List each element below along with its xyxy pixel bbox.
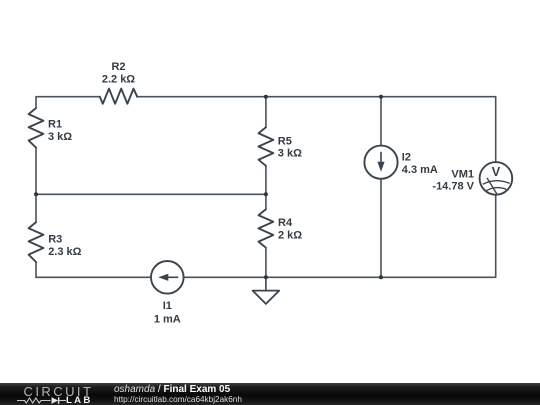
node C junction dot (mid-mid)	[264, 192, 268, 196]
svg-text:3 kΩ: 3 kΩ	[48, 131, 72, 143]
svg-text:oshamda / Final Exam 05: oshamda / Final Exam 05	[114, 384, 231, 395]
resistor R2	[100, 61, 137, 104]
CircuitLab logo resistor glyph	[17, 398, 51, 403]
resistor R5	[259, 127, 303, 166]
svg-text:R5: R5	[278, 135, 292, 147]
resistor R4	[259, 209, 303, 248]
node D junction dot (mid-bottom)	[264, 275, 268, 279]
node A junction dot (left-mid)	[34, 192, 38, 196]
CircuitLab logo diode glyph	[52, 397, 59, 404]
wire bottom rail left of I1	[36, 276, 151, 278]
wire R4 to bottom rail	[265, 248, 267, 278]
wire right vertical to VM1	[495, 97, 497, 162]
wire bottom rail I1 to right corner	[184, 195, 496, 278]
wire left bottom R3 to bottom rail	[35, 262, 37, 277]
svg-text:I1: I1	[163, 300, 172, 312]
wire I2 branch bottom	[380, 179, 382, 277]
current source I2	[364, 146, 438, 179]
svg-text:R2: R2	[111, 61, 125, 73]
wire mid vertical top to R5	[265, 97, 267, 128]
svg-text:3 kΩ: 3 kΩ	[278, 148, 302, 160]
wire middle horizontal node B	[36, 193, 266, 195]
voltmeter VM1	[432, 162, 512, 195]
svg-text:R1: R1	[48, 119, 62, 131]
wire left vertical R1 to R3	[35, 148, 37, 223]
svg-text:V: V	[492, 164, 501, 179]
resistor R1	[29, 108, 73, 148]
svg-text:4.3 mA: 4.3 mA	[402, 164, 438, 176]
node B junction dot (mid-top)	[264, 95, 268, 99]
wire R5 to node B	[265, 166, 267, 195]
svg-text:I2: I2	[402, 152, 411, 164]
svg-text:R3: R3	[48, 234, 62, 246]
wire R2 to top-right corner	[137, 96, 496, 98]
resistor R3	[29, 222, 82, 262]
current source I1	[151, 261, 184, 326]
svg-text:1 mA: 1 mA	[154, 314, 181, 326]
svg-text:R4: R4	[278, 217, 293, 229]
node F junction dot (I2 bottom)	[379, 275, 383, 279]
wire node B to R4	[265, 194, 267, 209]
svg-text:VM1: VM1	[451, 169, 474, 181]
svg-text:http://circuitlab.com/ca64kbj2: http://circuitlab.com/ca64kbj2ak6nh	[114, 395, 242, 404]
svg-text:2.3 kΩ: 2.3 kΩ	[48, 246, 81, 258]
svg-text:2.2 kΩ: 2.2 kΩ	[102, 74, 135, 86]
svg-text:-14.78 V: -14.78 V	[432, 181, 474, 193]
ground	[253, 277, 280, 304]
wire I2 branch top	[380, 97, 382, 146]
node E junction dot (I2 top)	[379, 95, 383, 99]
wire top-left to R2	[36, 97, 100, 108]
svg-text:2 kΩ: 2 kΩ	[278, 230, 302, 242]
svg-text:LAB: LAB	[66, 395, 93, 405]
